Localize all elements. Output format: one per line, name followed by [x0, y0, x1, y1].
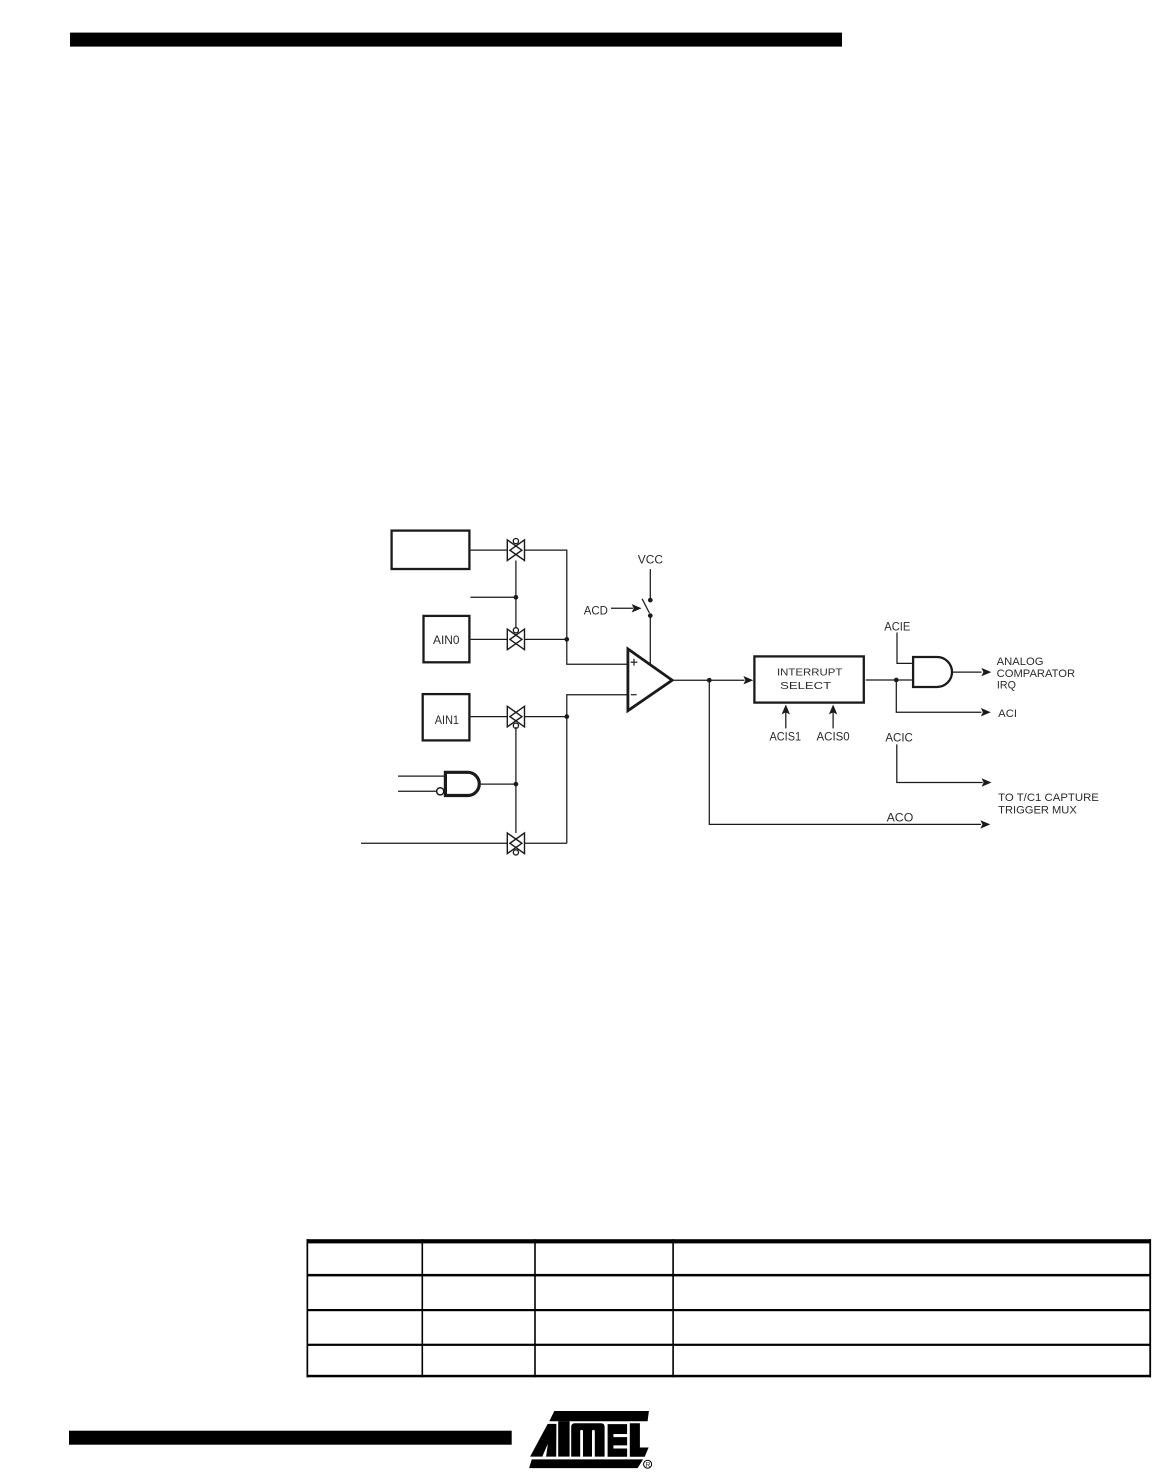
- wire node F to ACI arrow: [896, 680, 991, 716]
- svg-text:ACIS0: ACIS0: [817, 730, 851, 744]
- wire bandgap to switch S1: [471, 549, 508, 551]
- wire VCC to switch SW1: [649, 569, 651, 600]
- node D junction: [514, 782, 519, 787]
- node F junction: [894, 678, 899, 683]
- AIN0 box: [424, 616, 470, 662]
- ACD arrow: [611, 604, 642, 612]
- plus sign: [631, 659, 638, 666]
- arrow into interrupt select: [709, 676, 753, 684]
- ACIS1 arrow into box: [782, 705, 790, 729]
- AND gate U3: [913, 657, 952, 687]
- Atmel logo: [529, 1411, 649, 1468]
- svg-text:TRIGGER MUX: TRIGGER MUX: [998, 804, 1077, 816]
- svg-text:ACIC: ACIC: [885, 730, 913, 744]
- wire S2 to node B: [525, 638, 567, 640]
- svg-text:ACIS1: ACIS1: [770, 730, 802, 744]
- wire S4 to node C riser: [525, 842, 567, 844]
- node E junction: [707, 678, 712, 683]
- wire S1 bottom to S2 top: [515, 561, 517, 630]
- switch SW1 top terminal: [648, 598, 653, 603]
- table grid: [307, 1239, 1152, 1377]
- wire S3 bottom to S4 top: [515, 727, 517, 833]
- svg-text:VCC: VCC: [638, 552, 664, 566]
- wire node E to ACO arrow: [709, 680, 990, 828]
- svg-text:SELECT: SELECT: [780, 681, 831, 692]
- analog switch S4: [507, 833, 524, 855]
- wire U3 output arrow: [953, 668, 991, 676]
- svg-text:TO T/C1 CAPTURE: TO T/C1 CAPTURE: [998, 792, 1099, 804]
- svg-text:ACD: ACD: [584, 603, 609, 617]
- registered mark: [644, 1460, 652, 1469]
- svg-text:INTERRUPT: INTERRUPT: [777, 667, 842, 678]
- svg-text:ANALOG: ANALOG: [997, 656, 1044, 668]
- wire ACIE to AND gate: [897, 633, 912, 664]
- analog switch S3: [507, 706, 524, 728]
- wire S1 to node V1: [525, 550, 627, 664]
- AIN1 box: [423, 694, 470, 740]
- NAND gate U2 input wire 2: [398, 790, 437, 792]
- svg-text:COMPARATOR: COMPARATOR: [997, 668, 1075, 680]
- wire stub at node A: [470, 596, 516, 598]
- bandgap reference box: [392, 531, 470, 569]
- node B junction: [564, 637, 569, 642]
- analog switch S1: [507, 539, 524, 561]
- NAND gate U2 input wire 1: [398, 775, 445, 777]
- interrupt select box: [754, 656, 863, 702]
- wire mux input line: [361, 842, 508, 844]
- footer rule: [69, 1431, 512, 1445]
- svg-text:AIN0: AIN0: [433, 633, 460, 647]
- header rule: [70, 33, 842, 47]
- wire AIN1 to switch S3: [471, 716, 508, 718]
- switch SW1 bottom terminal: [648, 613, 653, 618]
- svg-text:ACI: ACI: [998, 708, 1017, 720]
- minus sign: [631, 694, 637, 696]
- wire AIN0 to switch S2: [471, 638, 508, 640]
- svg-text:IRQ: IRQ: [997, 680, 1016, 692]
- wire comparator output to node E: [674, 679, 710, 681]
- op-amp comparator U1: [628, 649, 672, 711]
- label ANALOG COMPARATOR IRQ: [997, 656, 1075, 692]
- node C junction: [564, 714, 569, 719]
- wire node C to comparator minus input: [567, 695, 627, 717]
- svg-text:R: R: [645, 1462, 650, 1469]
- analog switch S2: [507, 628, 524, 650]
- svg-text:ACO: ACO: [887, 810, 914, 824]
- svg-text:ACIE: ACIE: [884, 620, 910, 634]
- wire node C down to S4 output: [566, 717, 568, 844]
- node A junction: [514, 595, 519, 600]
- wire box output to node F: [866, 679, 912, 681]
- wire S3 to node C: [525, 716, 567, 718]
- wire U2 output to node D: [481, 783, 516, 785]
- wire SW1 to comparator: [649, 616, 651, 664]
- switch SW1 blade: [642, 599, 649, 613]
- NAND gate U2: [437, 772, 480, 795]
- wire ACIC to T/C1 arrow: [897, 744, 992, 786]
- svg-text:AIN1: AIN1: [435, 713, 459, 727]
- ACIS0 arrow into box: [829, 705, 837, 729]
- label TO T/C1 CAPTURE TRIGGER MUX: [998, 792, 1099, 816]
